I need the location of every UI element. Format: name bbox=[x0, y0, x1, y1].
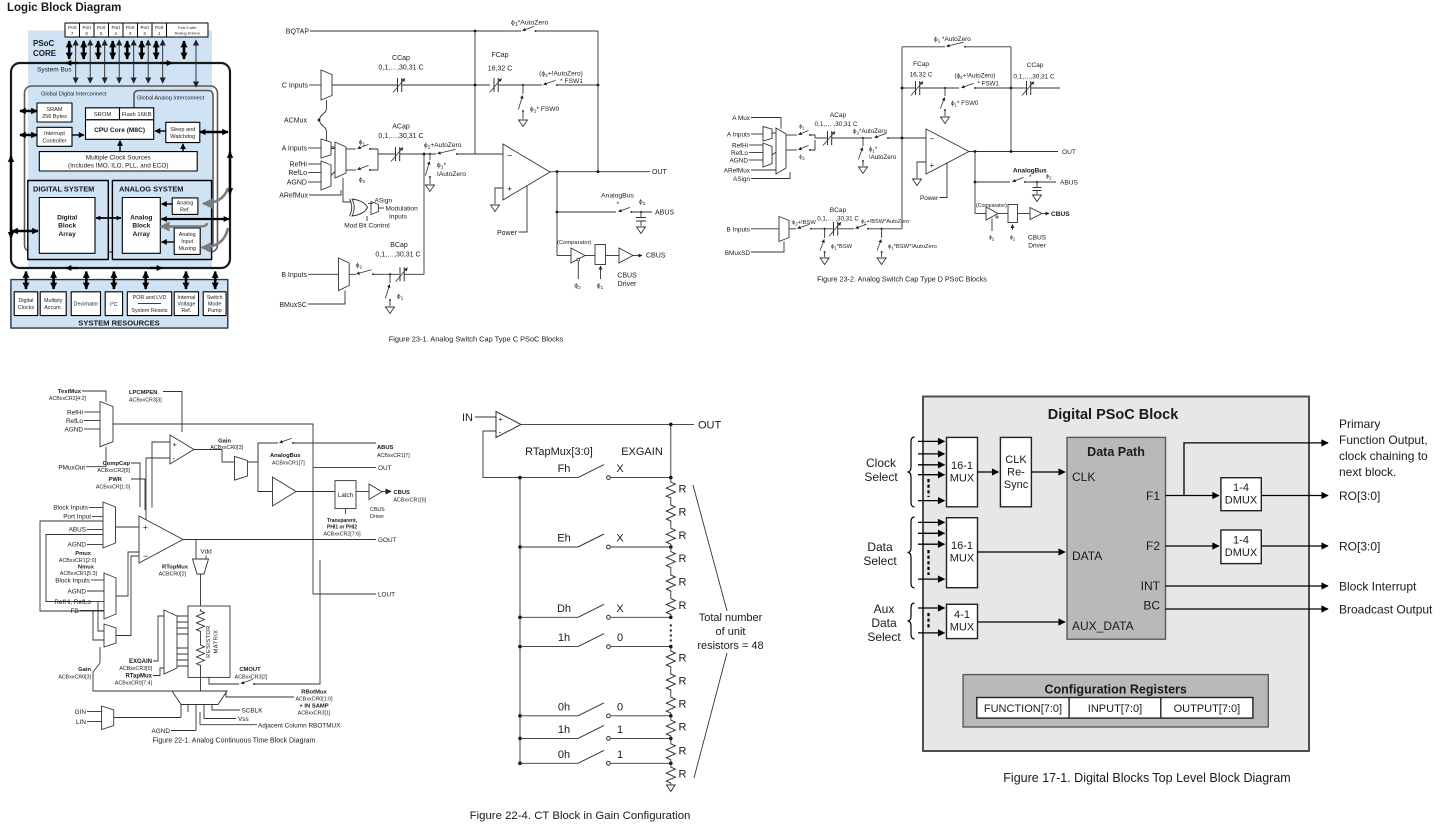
svg-text:CBUS: CBUS bbox=[1051, 211, 1070, 218]
wire left loop rails bbox=[40, 521, 104, 611]
digital psoc block outer box bbox=[923, 397, 1309, 752]
Figure 22-1 Analog Continuous Time Block bbox=[40, 389, 427, 745]
svg-text:Analog: Analog bbox=[179, 232, 196, 238]
resistor R10 bbox=[670, 716, 672, 719]
svg-text:Driver: Driver bbox=[370, 514, 384, 520]
svg-text:Eh: Eh bbox=[557, 533, 570, 545]
POR and LVD box bbox=[127, 292, 171, 316]
svg-text:ϕ2: ϕ2 bbox=[574, 283, 581, 292]
svg-text:CORE: CORE bbox=[33, 49, 57, 58]
svg-text:MUX: MUX bbox=[950, 553, 975, 565]
svg-text:OUT: OUT bbox=[652, 169, 668, 176]
svg-text:Port: Port bbox=[68, 25, 77, 30]
svg-text:OUT: OUT bbox=[378, 465, 392, 472]
svg-text:BC: BC bbox=[1143, 599, 1160, 613]
svg-text:Adjacent Column RBOTMUX: Adjacent Column RBOTMUX bbox=[258, 722, 341, 729]
wire interrupt bus arrow bbox=[20, 134, 37, 136]
svg-text:ϕ1 *AutoZero: ϕ1 *AutoZero bbox=[934, 36, 971, 45]
switch phi1*BSW*!AutoZero branch bbox=[881, 228, 883, 230]
svg-text:ϕ1: ϕ1 bbox=[597, 283, 604, 292]
svg-text:MUX: MUX bbox=[950, 622, 975, 634]
svg-text:ACBxxCR2[5]: ACBxxCR2[5] bbox=[97, 468, 130, 474]
node phi1 latch clock bbox=[1012, 225, 1014, 231]
wire interrupt to CPU bbox=[72, 134, 84, 136]
comparator U3 bbox=[146, 442, 170, 527]
svg-text:RefHi: RefHi bbox=[732, 143, 748, 150]
svg-text:Pump: Pump bbox=[208, 308, 222, 314]
port 7 thick bus arrow bbox=[68, 41, 71, 59]
svg-text:ASign: ASign bbox=[375, 198, 393, 205]
wire BC out bbox=[1166, 608, 1329, 610]
wire F1 to primary function output bbox=[1184, 443, 1327, 496]
svg-text:CMOUT: CMOUT bbox=[239, 667, 261, 673]
switch AnalogBus bbox=[619, 207, 631, 211]
ground second branch bbox=[877, 258, 886, 265]
wire aux data select input bbox=[918, 632, 945, 634]
port 4 thick bus arrow bbox=[111, 41, 114, 59]
CPU Core M8C box bbox=[86, 120, 154, 140]
port 2 global interconnect wire bbox=[147, 40, 149, 83]
svg-text:INT: INT bbox=[1141, 579, 1161, 593]
node OUT bbox=[550, 171, 650, 173]
mux RTapMux (resistor taps) bbox=[164, 610, 177, 674]
wire system resources bus arrow bbox=[185, 272, 188, 290]
svg-text:4-1: 4-1 bbox=[954, 609, 970, 621]
svg-text:OUTPUT[7:0]: OUTPUT[7:0] bbox=[1174, 703, 1241, 715]
wire clock select input bbox=[918, 500, 945, 502]
svg-text:Data Path: Data Path bbox=[1087, 445, 1145, 459]
wire A merge bbox=[811, 135, 827, 150]
svg-text:Vss: Vss bbox=[238, 716, 249, 723]
decimator box bbox=[71, 292, 100, 316]
svg-text:ϕ1: ϕ1 bbox=[1010, 235, 1016, 242]
svg-text:-: - bbox=[499, 427, 502, 437]
svg-text:* FSW1: * FSW1 bbox=[978, 80, 1000, 87]
switch phi1 A-path bbox=[786, 134, 797, 136]
mux ACMux C-inputs bbox=[321, 70, 332, 100]
svg-text:ABUS: ABUS bbox=[655, 210, 674, 217]
wire output down rail bbox=[556, 172, 558, 256]
svg-text:CBUS: CBUS bbox=[617, 272, 637, 279]
svg-text:+: + bbox=[507, 184, 512, 194]
svg-text:Figure 23-2. Analog Switch Ca: Figure 23-2. Analog Switch Cap Type D PS… bbox=[817, 275, 987, 284]
svg-text:ϕ1* FSW0: ϕ1* FSW0 bbox=[530, 106, 560, 115]
svg-text:Select: Select bbox=[867, 630, 901, 644]
svg-text:RefHi, RefLo: RefHi, RefLo bbox=[54, 599, 91, 606]
svg-text:Array: Array bbox=[59, 231, 77, 238]
node ABUS bbox=[974, 181, 977, 184]
port 1 global interconnect wire bbox=[162, 40, 164, 83]
svg-text:I2C: I2C bbox=[110, 301, 118, 308]
svg-text:ACap: ACap bbox=[392, 124, 410, 131]
svg-text:CLK: CLK bbox=[1072, 470, 1095, 484]
svg-text:ϕ1*: ϕ1* bbox=[869, 147, 878, 154]
svg-text:4: 4 bbox=[114, 31, 117, 36]
svg-text:Clocks: Clocks bbox=[18, 305, 34, 311]
latch block bbox=[1008, 205, 1018, 223]
left vertical bus arrow bbox=[10, 156, 12, 238]
svg-text:SYSTEM RESOURCES: SYSTEM RESOURCES bbox=[78, 319, 159, 328]
svg-text:−: − bbox=[507, 151, 512, 161]
PSoC logic block diagram bbox=[7, 2, 230, 328]
port 5 thick bus arrow bbox=[97, 41, 100, 59]
node phi1 latch clock bbox=[600, 266, 602, 279]
svg-text:Nmux: Nmux bbox=[78, 565, 95, 571]
wire SRAM bus arrow bbox=[20, 110, 37, 112]
wire analog array right bus bbox=[162, 218, 230, 220]
svg-text:RO[3:0]: RO[3:0] bbox=[1339, 540, 1380, 554]
svg-text:0: 0 bbox=[617, 701, 623, 713]
svg-text:R: R bbox=[679, 530, 687, 542]
svg-text:ABUS: ABUS bbox=[1060, 180, 1079, 187]
svg-text:INPUT[7:0]: INPUT[7:0] bbox=[1088, 703, 1142, 715]
svg-text:TestMux: TestMux bbox=[58, 389, 82, 395]
svg-text:Figure 23-1. Analog Switch Ca: Figure 23-1. Analog Switch Cap Type C PS… bbox=[389, 335, 564, 344]
svg-text:OUT: OUT bbox=[698, 420, 722, 432]
svg-text:* FSW1: * FSW1 bbox=[560, 78, 583, 85]
svg-text:Figure 17-1. Digital Blocks T: Figure 17-1. Digital Blocks Top Level Bl… bbox=[1003, 771, 1290, 785]
switch phi1*AutoZero S1 bbox=[523, 26, 535, 30]
node GOUT bbox=[183, 539, 376, 541]
svg-text:Multiple Clock Sources: Multiple Clock Sources bbox=[86, 155, 151, 162]
svg-text:(ϕ2+!AutoZero): (ϕ2+!AutoZero) bbox=[955, 73, 996, 81]
svg-text:Digital: Digital bbox=[18, 298, 33, 304]
mux mod-bit bbox=[371, 202, 379, 215]
wire rbotmux outputs bbox=[188, 705, 240, 729]
switch phi1*AutoZero bbox=[947, 42, 964, 46]
ground ladder bbox=[667, 785, 676, 792]
resistor chain lower bbox=[197, 643, 205, 667]
port 3 box bbox=[123, 23, 138, 37]
svg-text:Ref.: Ref. bbox=[180, 208, 190, 214]
switch FSW0 branch bbox=[522, 84, 524, 86]
svg-text:+: + bbox=[499, 415, 504, 424]
port 5 box bbox=[94, 23, 109, 37]
svg-text:DIGITAL SYSTEM: DIGITAL SYSTEM bbox=[33, 185, 94, 194]
svg-text:ACBxxCR2[7:6]: ACBxxCR2[7:6] bbox=[323, 532, 361, 538]
svg-text:CBUS: CBUS bbox=[646, 253, 666, 260]
svg-text:Port: Port bbox=[82, 25, 91, 30]
brace clock select bbox=[908, 437, 915, 507]
resistor chain upper bbox=[197, 609, 205, 633]
wire system resources bus arrow bbox=[85, 272, 88, 290]
svg-text:RO[3:0]: RO[3:0] bbox=[1339, 489, 1380, 503]
comparator U2 bbox=[986, 207, 998, 220]
bottom bus left arrowhead bbox=[66, 267, 78, 269]
wire dmux1 to RO bbox=[1261, 495, 1328, 497]
gray wire analog array out bbox=[161, 223, 208, 227]
wire clock select input bbox=[918, 453, 945, 455]
switch phi1*BSW branch bbox=[824, 228, 826, 230]
wire data select input bbox=[918, 532, 945, 534]
svg-text:Inputs: Inputs bbox=[389, 214, 408, 221]
svg-text:0,1,… ,30,31 C: 0,1,… ,30,31 C bbox=[815, 121, 858, 128]
svg-text:Port 0 with: Port 0 with bbox=[178, 25, 196, 30]
svg-text:ϕ2+!BSW: ϕ2+!BSW bbox=[792, 220, 816, 227]
svg-text:0,1,…,30,31 C: 0,1,…,30,31 C bbox=[375, 252, 420, 259]
svg-text:OUT: OUT bbox=[1062, 149, 1076, 156]
svg-text:SRAM: SRAM bbox=[46, 107, 63, 113]
svg-text:1-4: 1-4 bbox=[1233, 535, 1249, 547]
svg-text:ASign: ASign bbox=[733, 176, 750, 183]
svg-text:Re-: Re- bbox=[1007, 467, 1025, 479]
mux RBotMux (bottom) bbox=[172, 691, 227, 705]
svg-text:Input: Input bbox=[181, 239, 193, 245]
svg-text:ACBxxCR2[4:2]: ACBxxCR2[4:2] bbox=[49, 396, 87, 402]
wire data select input bbox=[918, 521, 945, 523]
switch phi2 A-path bbox=[346, 169, 356, 171]
svg-text:SCBLK: SCBLK bbox=[242, 708, 264, 715]
mux A main bbox=[776, 128, 786, 174]
port 5 global interconnect wire bbox=[104, 40, 106, 83]
svg-text:ACBxxCR0[3]: ACBxxCR0[3] bbox=[58, 675, 91, 681]
svg-text:clock chaining to: clock chaining to bbox=[1339, 449, 1428, 463]
svg-text:Digital: Digital bbox=[57, 214, 77, 221]
svg-text:F1: F1 bbox=[1146, 489, 1160, 503]
svg-text:Global Digital Interconnect: Global Digital Interconnect bbox=[41, 92, 107, 98]
PSoC core blue background bbox=[28, 31, 212, 268]
svg-text:System Resets: System Resets bbox=[131, 308, 168, 314]
svg-text:+: + bbox=[173, 440, 178, 449]
resistor R1 bbox=[670, 478, 672, 482]
resistor R5 bbox=[670, 570, 672, 574]
svg-text:Internal: Internal bbox=[177, 295, 195, 301]
svg-text:0,1,… ,30,31 C: 0,1,… ,30,31 C bbox=[817, 216, 859, 223]
svg-text:PMuxOut: PMuxOut bbox=[58, 464, 85, 471]
gray wire to analog input muxing bbox=[202, 228, 229, 248]
svg-text:ϕ2: ϕ2 bbox=[989, 235, 995, 242]
svg-text:ϕ1*BSW: ϕ1*BSW bbox=[831, 244, 853, 251]
svg-text:ϕ1*AutoZero: ϕ1*AutoZero bbox=[511, 20, 548, 29]
svg-text:FUNCTION[7:0]: FUNCTION[7:0] bbox=[984, 703, 1062, 715]
svg-text:Controller: Controller bbox=[42, 138, 66, 144]
svg-text:Muxing: Muxing bbox=[179, 246, 196, 252]
svg-text:1h: 1h bbox=[558, 724, 570, 736]
svg-text:1-4: 1-4 bbox=[1233, 482, 1249, 494]
Flash 16KB box bbox=[120, 108, 154, 120]
mux BMuxSC bbox=[339, 258, 350, 291]
svg-text:Driver: Driver bbox=[618, 281, 637, 288]
svg-text:ACap: ACap bbox=[830, 112, 847, 119]
switch phi1 A-path bbox=[346, 148, 356, 150]
resistor R11 bbox=[670, 738, 672, 742]
svg-text:Block: Block bbox=[132, 223, 150, 230]
wire clocks to CPU bbox=[119, 141, 121, 152]
svg-text:BMuxSD: BMuxSD bbox=[725, 250, 751, 257]
svg-text:PHI1 or PHI2: PHI1 or PHI2 bbox=[327, 525, 357, 531]
svg-text:RefLo: RefLo bbox=[66, 418, 83, 425]
svg-text:CCap: CCap bbox=[392, 55, 410, 62]
svg-text:Select: Select bbox=[864, 470, 898, 484]
wire analog ref to array bbox=[162, 203, 173, 205]
svg-text:SROM: SROM bbox=[94, 112, 112, 118]
svg-text:Accum.: Accum. bbox=[44, 305, 62, 311]
svg-text:RTapMux: RTapMux bbox=[125, 674, 152, 680]
register FUNCTION[7:0] bbox=[977, 698, 1253, 719]
svg-text:R: R bbox=[679, 699, 687, 711]
global analog interconnect rounded box bbox=[134, 91, 213, 249]
svg-text:16,32 C: 16,32 C bbox=[909, 72, 932, 79]
dmux 1-4 upper bbox=[1221, 478, 1261, 511]
svg-text:AGND: AGND bbox=[68, 589, 87, 596]
wire clock select input bbox=[918, 440, 945, 442]
node OUT bbox=[521, 423, 694, 425]
analog block array box bbox=[122, 198, 160, 254]
port 4 box bbox=[109, 23, 124, 37]
svg-text:ϕ1: ϕ1 bbox=[799, 124, 805, 131]
svg-text:Watchdog: Watchdog bbox=[170, 134, 195, 140]
port 0 thick bus arrow bbox=[183, 41, 186, 59]
svg-text:BCap: BCap bbox=[830, 207, 847, 214]
buffer amp bbox=[258, 443, 273, 492]
data path block bbox=[1067, 437, 1166, 639]
wire A-path merge bbox=[371, 149, 395, 170]
wire top AutoZero rail bbox=[902, 46, 1011, 48]
svg-text:ϕ2: ϕ2 bbox=[639, 199, 646, 208]
svg-text:ϕ2+!BSW*AutoZero: ϕ2+!BSW*AutoZero bbox=[861, 219, 909, 226]
svg-text:256 Bytes: 256 Bytes bbox=[42, 114, 67, 120]
mux 16-1 data bbox=[947, 518, 978, 588]
wire BQTAP rail bbox=[310, 30, 598, 32]
svg-text:Switch: Switch bbox=[207, 295, 223, 301]
switch mode pump box bbox=[203, 292, 226, 316]
svg-text:LOUT: LOUT bbox=[378, 592, 395, 599]
svg-text:A Mux: A Mux bbox=[732, 115, 751, 122]
wire data select input bbox=[918, 543, 945, 545]
mux feedback small bbox=[104, 624, 116, 647]
svg-text:Multiply: Multiply bbox=[44, 298, 63, 304]
svg-text:ϕ2: ϕ2 bbox=[799, 155, 805, 162]
svg-text:+: + bbox=[143, 523, 148, 532]
capacitor ABUS bbox=[1036, 181, 1038, 183]
port 3 thick bus arrow bbox=[126, 41, 129, 59]
junction BQTAP/summing bbox=[474, 30, 477, 33]
wire analog input muxing to array bbox=[162, 241, 175, 243]
resistor R8 bbox=[670, 670, 672, 674]
svg-text:RefHi: RefHi bbox=[67, 410, 83, 417]
system bus left arrowhead bbox=[66, 62, 78, 64]
svg-text:R: R bbox=[679, 722, 687, 734]
mux GIN/LIN bbox=[102, 706, 114, 730]
svg-text:FB: FB bbox=[71, 608, 79, 615]
wire system resources bus arrow bbox=[52, 272, 55, 290]
svg-text:Decimator: Decimator bbox=[74, 302, 99, 308]
port 6 thick bus arrow bbox=[82, 41, 85, 59]
svg-text:Block Interrupt: Block Interrupt bbox=[1339, 580, 1417, 594]
svg-text:Sleep and: Sleep and bbox=[170, 127, 195, 133]
wire feedback bbox=[483, 431, 519, 478]
right vertical bus arrow bbox=[229, 152, 231, 194]
svg-text:ACBxxCR1[5:3]: ACBxxCR1[5:3] bbox=[60, 571, 98, 577]
svg-text:LPCMPEN: LPCMPEN bbox=[129, 390, 157, 396]
SROM box bbox=[86, 108, 120, 120]
svg-text:R: R bbox=[679, 745, 687, 757]
node phi2 comparator clock bbox=[991, 219, 993, 232]
svg-text:ACBxxCR1[6]: ACBxxCR1[6] bbox=[394, 498, 427, 504]
switch FSW0 branch bbox=[944, 87, 946, 89]
node latch phase bbox=[345, 509, 347, 514]
mux BMuxSD bbox=[779, 217, 789, 242]
svg-text:AGND: AGND bbox=[65, 427, 84, 434]
svg-text:R: R bbox=[679, 600, 687, 612]
svg-text:ACBCR0[2]: ACBCR0[2] bbox=[159, 572, 187, 578]
svg-text:DMUX: DMUX bbox=[1225, 547, 1258, 559]
dmux 1-4 lower bbox=[1221, 530, 1261, 564]
svg-text:B Inputs: B Inputs bbox=[727, 226, 750, 233]
Figure 23-1 Analog Switch Cap Type C PSoC Block bbox=[279, 20, 674, 344]
svg-text:0h: 0h bbox=[558, 701, 570, 713]
mux TestMux bbox=[100, 402, 113, 447]
svg-text:ϕ2: ϕ2 bbox=[1046, 174, 1052, 181]
switch IAutoZero branch bbox=[862, 137, 864, 139]
svg-text:Dh: Dh bbox=[557, 603, 571, 615]
svg-text:ϕ1: ϕ1 bbox=[397, 293, 404, 302]
bottom bus right arrowhead bbox=[150, 267, 162, 269]
svg-text:Vdd: Vdd bbox=[200, 549, 212, 556]
svg-text:Function Output,: Function Output, bbox=[1339, 433, 1428, 447]
svg-text:ABUS: ABUS bbox=[69, 527, 86, 534]
wire system resources bus arrow bbox=[144, 272, 147, 290]
ground IAutoZero bbox=[859, 167, 868, 174]
svg-text:0h: 0h bbox=[558, 749, 570, 761]
node OUT bbox=[969, 151, 1058, 153]
svg-text:5: 5 bbox=[100, 31, 103, 36]
svg-text:Port: Port bbox=[155, 25, 164, 30]
analog ref box bbox=[172, 198, 198, 215]
svg-text:F2: F2 bbox=[1146, 539, 1160, 553]
ground ABUS cap bbox=[637, 227, 646, 234]
wire F2 to dmux2 bbox=[1166, 545, 1219, 547]
port 2 box bbox=[138, 23, 153, 37]
svg-text:Digital PSoC Block: Digital PSoC Block bbox=[1048, 407, 1179, 423]
latch block bbox=[335, 481, 356, 509]
wire left rail bbox=[901, 47, 903, 229]
wire system resources bus arrow bbox=[214, 272, 217, 290]
ground FSW0 bbox=[519, 120, 528, 127]
svg-text:Mode: Mode bbox=[208, 302, 222, 308]
svg-text:Block Inputs: Block Inputs bbox=[55, 578, 90, 585]
svg-text:Configuration Registers: Configuration Registers bbox=[1045, 683, 1187, 697]
svg-text:!AutoZero: !AutoZero bbox=[869, 154, 897, 161]
svg-text:CCap: CCap bbox=[1027, 62, 1044, 69]
svg-text:R: R bbox=[679, 676, 687, 688]
resistor R9 bbox=[670, 693, 672, 697]
svg-text:Aux: Aux bbox=[874, 602, 895, 616]
svg-text:CBUS: CBUS bbox=[1028, 235, 1047, 242]
svg-text:AUX_DATA: AUX_DATA bbox=[1072, 619, 1134, 633]
svg-text:CBUS: CBUS bbox=[370, 507, 385, 513]
svg-text:CompCap: CompCap bbox=[103, 461, 131, 467]
svg-text:0,1,…,30,31 C: 0,1,…,30,31 C bbox=[378, 65, 423, 72]
svg-text:Ref.: Ref. bbox=[181, 308, 191, 314]
svg-text:*: * bbox=[617, 201, 620, 208]
mux 16-1 clock bbox=[947, 437, 978, 506]
wire comparator to gain mux bbox=[194, 450, 235, 463]
svg-text:R: R bbox=[679, 553, 687, 565]
mux ARefMux bbox=[321, 161, 331, 190]
svg-text:X: X bbox=[616, 463, 624, 475]
analog input muxing box bbox=[174, 228, 200, 254]
ground BSW branch bbox=[820, 258, 829, 265]
svg-text:Array: Array bbox=[133, 231, 151, 238]
svg-text:System Bus: System Bus bbox=[37, 67, 72, 74]
wire data select input bbox=[918, 578, 945, 580]
Figure 22-4 CT Block in Gain Configuration bbox=[462, 412, 764, 823]
svg-text:(Includes IMO, ILO, PLL, and E: (Includes IMO, ILO, PLL, and ECO) bbox=[68, 163, 169, 170]
svg-text:Logic Block Diagram: Logic Block Diagram bbox=[7, 2, 121, 14]
svg-text:Gain: Gain bbox=[78, 667, 91, 673]
svg-text:Primary: Primary bbox=[1339, 417, 1380, 431]
